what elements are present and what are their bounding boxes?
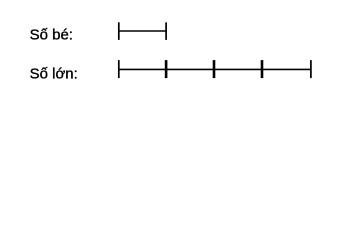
large bar interior tick 2	[213, 60, 216, 78]
large bar right tick	[310, 60, 312, 78]
large-number bar line	[118, 68, 311, 70]
small bar right tick	[165, 22, 167, 40]
large bar left tick	[118, 60, 120, 78]
small bar left tick	[118, 22, 120, 40]
small-number bar line	[118, 30, 167, 32]
large bar interior tick 3	[261, 60, 264, 78]
svg-text:Số bé:: Số bé:	[30, 26, 73, 43]
svg-text:Số lớn:: Số lớn:	[30, 65, 78, 82]
large bar interior tick 1	[165, 60, 168, 78]
